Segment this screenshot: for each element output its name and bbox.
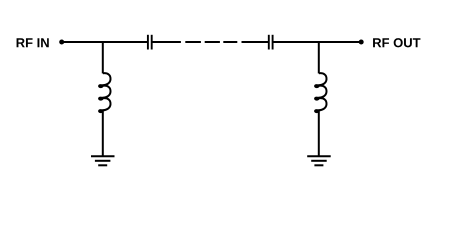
wire: dashed section to capacitor C2 (242, 41, 269, 43)
wire: dashed omitted-section segment 2 (205, 41, 220, 43)
wire: inductor L2 to ground (318, 111, 320, 157)
node RF OUT terminal dot (359, 40, 364, 45)
wire: right branch from junction down to inductor L2 (318, 41, 320, 73)
wire: C1 to dashed section (153, 41, 181, 43)
node RF IN terminal dot (59, 40, 64, 45)
capacitor C2 (269, 35, 273, 50)
inductor L1 (99, 73, 110, 112)
capacitor C1 (148, 35, 152, 50)
wire: RF IN dot to capacitor C1 (62, 41, 147, 43)
wire: left branch from junction down to inductor L1 (102, 41, 104, 73)
wire: C2 to RF OUT dot (274, 41, 362, 43)
wire: dashed omitted-section segment 1 (185, 41, 201, 43)
node RF OUT label (373, 38, 420, 47)
wire: inductor L1 to ground (102, 111, 104, 157)
ground (right) (307, 156, 331, 165)
wire: dashed omitted-section segment 3 (223, 41, 237, 43)
inductor L2 (315, 73, 326, 112)
node RF IN label (17, 38, 49, 47)
ground (left) (91, 156, 115, 165)
